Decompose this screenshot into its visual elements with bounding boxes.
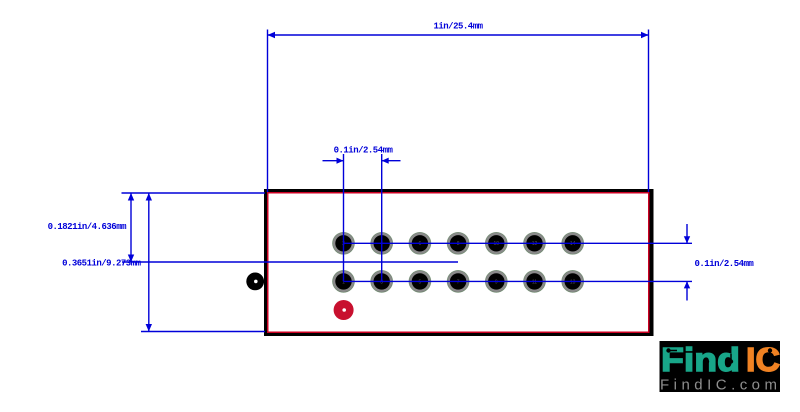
FindIC logo circuit via on F: [666, 348, 677, 352]
dimension 0.1in/2.54mm pitch: right arrowhead: [382, 158, 389, 164]
svg-text:7: 7: [457, 279, 460, 285]
pad 6 (top row, col 3): [409, 232, 431, 254]
svg-text:12: 12: [532, 241, 538, 247]
pad 7 (bottom row, col 4): [447, 270, 469, 292]
dimension 0.3651in/9.273mm: dimension line: [148, 193, 150, 332]
component body outline: [264, 189, 654, 336]
dimension 1in/25.4mm: right arrowhead: [641, 32, 649, 38]
FindIC logo circuit via on d: [729, 354, 733, 364]
svg-text:6: 6: [419, 241, 422, 247]
svg-text:11: 11: [532, 279, 537, 285]
component body interior: [269, 194, 649, 332]
svg-text:0.1in/2.54mm: 0.1in/2.54mm: [695, 259, 755, 269]
FindIC logo circuit via on C: [768, 348, 772, 364]
svg-text:Find: Find: [661, 341, 740, 378]
left dimensions: bottom extension line: [141, 331, 265, 333]
svg-text:IC: IC: [746, 341, 780, 378]
svg-text:0.1in/2.54mm: 0.1in/2.54mm: [334, 146, 394, 156]
dimension 0.1in/2.54mm row spacing: lower arrowhead: [684, 281, 690, 288]
dimension 0.3651in/9.273mm: bottom arrowhead: [146, 324, 152, 332]
svg-text:0.3651in/9.273mm: 0.3651in/9.273mm: [62, 259, 142, 269]
pad 2 (top row, col 1): [333, 232, 355, 254]
dimension 0.1in/2.54mm pitch: column 1 extension line: [343, 154, 345, 282]
dimension 0.1in/2.54mm pitch: right leader line: [382, 160, 401, 162]
pad 13 (bottom row, col 7): [562, 270, 584, 292]
left dimensions: top extension line: [122, 192, 266, 194]
dimension 0.1in/2.54mm pitch: left leader line: [323, 160, 344, 162]
pad 4 (top row, col 2): [371, 232, 393, 254]
svg-text:8: 8: [457, 241, 460, 247]
FindIC logo circuit via on n: [705, 359, 709, 369]
svg-text:1in/25.4mm: 1in/25.4mm: [433, 22, 483, 32]
left dimensions: centerline extension line: [122, 261, 458, 263]
svg-text:9: 9: [495, 279, 498, 285]
dimension 1in/25.4mm: left extension line: [267, 30, 269, 193]
dimension 0.1821in/4.636mm: top arrowhead: [128, 193, 134, 201]
pad 14 (top row, col 7): [562, 232, 584, 254]
svg-text:0.1821in/4.636mm: 0.1821in/4.636mm: [48, 222, 128, 232]
bottom pad row centerline: [344, 280, 693, 282]
dimension 0.1in/2.54mm pitch: column 2 extension line: [381, 154, 383, 282]
component body inner outline (red courtyard): [267, 192, 650, 333]
dimension 1in/25.4mm: left arrowhead: [268, 32, 276, 38]
pad 5 (bottom row, col 3): [409, 270, 431, 292]
pad 3 (bottom row, col 2): [371, 270, 393, 292]
pad 8 (top row, col 4): [447, 232, 469, 254]
dimension 0.1in/2.54mm row spacing: upper leader line: [686, 224, 688, 243]
FindIC logo box: [660, 341, 781, 392]
origin pad (black, on left body edge): [246, 273, 264, 291]
dimension 1in/25.4mm: right extension line: [648, 30, 650, 193]
pad 11 (bottom row, col 6): [524, 270, 546, 292]
pad 10 (top row, col 5): [485, 232, 507, 254]
dimension 0.1in/2.54mm row spacing: upper arrowhead: [684, 236, 690, 243]
top pad row centerline: [344, 242, 693, 244]
pin 1 marker pad (red): [334, 300, 354, 320]
svg-text:10: 10: [494, 241, 500, 247]
pad 9 (bottom row, col 5): [485, 270, 507, 292]
dimension 0.1821in/4.636mm: bottom arrowhead: [128, 255, 134, 263]
pad 12 (top row, col 6): [524, 232, 546, 254]
svg-text:14: 14: [570, 241, 576, 247]
dimension 0.1821in/4.636mm: dimension line: [130, 193, 132, 262]
pad 1 (bottom row, col 1): [333, 270, 355, 292]
svg-text:5: 5: [419, 279, 422, 285]
dimension 0.1in/2.54mm pitch: left arrowhead: [337, 158, 344, 164]
svg-text:13: 13: [570, 279, 576, 285]
dimension 0.1in/2.54mm row spacing: lower leader line: [686, 281, 688, 300]
dimension 1in/25.4mm: dimension line: [268, 34, 649, 36]
dimension 0.3651in/9.273mm: top arrowhead: [146, 193, 152, 201]
